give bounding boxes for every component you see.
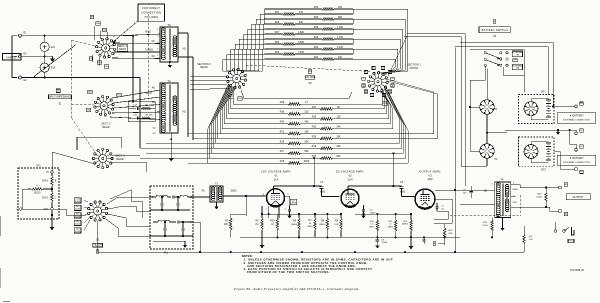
resistor R32 330 bbox=[322, 8, 334, 11]
terminal E3 bbox=[19, 55, 22, 58]
resistor R31 470 bbox=[283, 13, 295, 16]
FL1 terminal 5 bbox=[191, 221, 193, 223]
socket P1 bbox=[480, 100, 494, 114]
wire lower ladder row from switch fan bbox=[231, 97, 320, 109]
resistor R7 .51MEG bbox=[314, 218, 316, 230]
wire E3 diagonal to switch S1 sect3 bbox=[35, 45, 77, 77]
resistor R28 1,300 bbox=[322, 28, 334, 31]
svg-text:TO LINES: TO LINES bbox=[144, 15, 158, 19]
main bottom bus wire bbox=[240, 236, 460, 238]
svg-text:OUT: OUT bbox=[44, 209, 49, 211]
resistor R12 1MEG bbox=[410, 220, 412, 231]
T1 ground wire bbox=[170, 133, 172, 157]
gang dash branch to SECT.2 REAR bbox=[72, 103, 95, 106]
battery switch S4 contacts bbox=[484, 52, 486, 54]
junction dots on buses bbox=[276, 236, 278, 238]
wire lower ladder row from switch fan bbox=[214, 121, 321, 148]
resistor R4 22K bbox=[523, 234, 525, 244]
resistor R19 30K bbox=[288, 142, 301, 145]
wire fan to SECTION 2 REAR contact bbox=[233, 69, 235, 72]
resistor R3 20K bbox=[229, 218, 232, 230]
FL1 lower caps bbox=[164, 222, 166, 228]
svg-text:R1 10K: R1 10K bbox=[145, 105, 153, 107]
svg-text:1ST VOLTAGE AMPL: 1ST VOLTAGE AMPL bbox=[261, 170, 291, 174]
svg-text:470: 470 bbox=[299, 11, 304, 14]
FL1 terminal 3 bbox=[151, 235, 153, 237]
svg-text:R38: R38 bbox=[280, 101, 285, 104]
wire lower ladder row from switch fan bbox=[229, 100, 288, 114]
svg-text:xx: xx bbox=[392, 85, 394, 87]
upper ladder right connection verticals bbox=[352, 9, 354, 14]
rotary switch S1 SECT.3 REAR bbox=[102, 44, 110, 52]
svg-text:600Ω: 600Ω bbox=[146, 92, 152, 95]
wire V3 plate to T4 bbox=[435, 189, 495, 191]
resistor R16 82K bbox=[320, 157, 333, 160]
wire fan to SECTION 1 FRONT contact bbox=[379, 72, 408, 73]
resistor R37 82 bbox=[320, 108, 333, 111]
ground under R12 bbox=[410, 244, 412, 246]
svg-text:30K: 30K bbox=[304, 140, 309, 143]
resistor R34 460 bbox=[288, 122, 301, 125]
wire under V1 bus bbox=[262, 213, 341, 215]
svg-text:1,800: 1,800 bbox=[298, 31, 305, 34]
resistor R22 10K bbox=[322, 58, 334, 61]
svg-text:2MEG: 2MEG bbox=[319, 224, 325, 226]
wire input top bus bbox=[45, 35, 133, 37]
svg-text:V2: V2 bbox=[348, 174, 352, 178]
svg-text:FL1: FL1 bbox=[164, 251, 169, 254]
svg-text:R29: R29 bbox=[275, 21, 280, 24]
svg-text:1L4: 1L4 bbox=[274, 178, 279, 182]
wire fan to SECTION 1 FRONT contact bbox=[380, 71, 405, 73]
svg-text:FRONT: FRONT bbox=[410, 66, 419, 70]
svg-text:R2 10K: R2 10K bbox=[145, 115, 153, 117]
svg-text:R28: R28 bbox=[314, 26, 319, 29]
wire jack column bbox=[44, 51, 46, 63]
wire lower ladder row from switch fan bbox=[220, 112, 288, 134]
wire lower ladder row R21 long to right verticals bbox=[301, 92, 434, 134]
wire above SECT.1 REAR bbox=[77, 137, 121, 148]
wire lower ladder row to SECTION 1 FRONT bbox=[333, 128, 406, 159]
wire SECT.3 to T2 line 0 ohm bbox=[114, 42, 160, 45]
svg-text:INPUT IMPEDANCE: INPUT IMPEDANCE bbox=[48, 94, 72, 98]
wire FL1 lower to bus bbox=[193, 222, 200, 252]
ground under C4 bbox=[363, 214, 365, 216]
wire SECT.1 REAR to AT1 IN bbox=[52, 152, 95, 171]
tube V2 bbox=[341, 189, 359, 207]
capacitor C2 and A tap bbox=[290, 199, 297, 204]
resistor R33 240 bbox=[320, 127, 333, 130]
wire T3 to V1 grid bbox=[223, 195, 258, 197]
label INPUT bbox=[3, 54, 22, 61]
resistor R11 .5MEG bbox=[394, 220, 396, 231]
resistor A 15010 horizontal bbox=[51, 188, 53, 190]
label INTERNAL ON bbox=[512, 64, 522, 70]
svg-text:.25UF: .25UF bbox=[291, 203, 297, 205]
svg-text:4Ω: 4Ω bbox=[183, 111, 186, 114]
upper ladder left staircase wires to SECTION 2 REAR bbox=[223, 9, 265, 71]
wire fan to SECTION 1 FRONT contact bbox=[381, 70, 402, 74]
filter position label box 4 bbox=[74, 220, 81, 225]
svg-text:1MEG: 1MEG bbox=[402, 224, 408, 226]
wire SECT.1 REAR right side bbox=[112, 154, 140, 156]
svg-text:10K: 10K bbox=[338, 56, 343, 59]
svg-text:0Ω: 0Ω bbox=[151, 55, 154, 58]
BT1 battery symbol bbox=[546, 99, 551, 101]
chassis dash line near output bbox=[450, 215, 521, 217]
ground input bbox=[45, 55, 53, 57]
resistor R25 3,600 bbox=[283, 43, 295, 46]
FL1 middle wire bbox=[153, 209, 190, 211]
svg-text:▼ BATTERY: ▼ BATTERY bbox=[569, 157, 584, 160]
capacitor C6 100 bbox=[470, 190, 473, 192]
T1 terminal numbers bbox=[159, 87, 160, 88]
svg-text:15,010: 15,010 bbox=[33, 193, 41, 195]
label EXTERNAL ON bbox=[512, 51, 522, 57]
output terminal E5 bbox=[559, 186, 562, 189]
wire lower ladder row to SECTION 1 FRONT bbox=[301, 100, 387, 114]
svg-text:MEG: MEG bbox=[308, 226, 313, 228]
wire lower ladder row from switch fan bbox=[211, 124, 288, 153]
svg-text:5,100: 5,100 bbox=[482, 225, 488, 227]
svg-text:220: 220 bbox=[305, 111, 310, 114]
wire V3 right loops bbox=[434, 199, 452, 223]
label battery external connection lower bbox=[557, 155, 596, 165]
jack J1 bbox=[40, 42, 49, 51]
resistor R38 27 bbox=[288, 103, 301, 106]
wire mid junction to battery bbox=[487, 132, 507, 134]
label OFF bbox=[513, 59, 518, 62]
resistor R14 5100 bbox=[491, 220, 493, 231]
svg-text:R39: R39 bbox=[270, 221, 275, 223]
svg-text:5,000: 5,000 bbox=[75, 209, 81, 211]
socket P2 bbox=[480, 144, 494, 158]
svg-text:xx: xx bbox=[363, 85, 365, 87]
T3 ground bbox=[216, 202, 218, 205]
terminal E8 bbox=[575, 105, 578, 108]
svg-text:220K: 220K bbox=[304, 160, 310, 163]
capacitor FL1 C lower bbox=[177, 220, 179, 223]
svg-text:xx: xx bbox=[389, 91, 391, 93]
FL1 terminal 4 bbox=[191, 196, 193, 198]
svg-text:3,600: 3,600 bbox=[536, 196, 542, 198]
AT1 IN terminal bbox=[51, 171, 53, 173]
svg-text:3,000: 3,000 bbox=[75, 216, 81, 218]
svg-text:56K: 56K bbox=[304, 150, 309, 153]
wire E2 to jack column bbox=[22, 77, 45, 79]
wire fan to SECTION 1 FRONT contact bbox=[383, 69, 401, 74]
wire V2 plate load tie to ladder row bbox=[393, 153, 395, 186]
gang dash branch to SECT.1 REAR bbox=[72, 118, 98, 155]
wire AT1 left leg bbox=[22, 189, 28, 209]
resistor R9 3.9K bbox=[340, 218, 342, 230]
label S1 INPUT IMPEDANCE bbox=[56, 89, 60, 93]
wire lower ladder row from switch fan bbox=[224, 106, 288, 124]
svg-text:1M: 1M bbox=[90, 17, 93, 19]
wire loop right of S2 bbox=[110, 190, 142, 218]
wire SECT.3 to T2 line 600 ohm bbox=[113, 34, 160, 36]
svg-text:2,000: 2,000 bbox=[75, 224, 81, 226]
wire FL1 to T3 bbox=[193, 196, 210, 198]
svg-text:INPUT: INPUT bbox=[7, 55, 18, 59]
wire V1 grid bbox=[258, 195, 267, 197]
terminal E4 bbox=[559, 210, 562, 213]
svg-text:R36: R36 bbox=[280, 111, 285, 114]
wire S2 bottom to bus bbox=[98, 221, 240, 252]
inductor L2 bbox=[180, 195, 188, 197]
svg-text:1U4: 1U4 bbox=[348, 178, 353, 182]
BT2 battery symbol bbox=[546, 142, 551, 144]
capacitor C3 6200 bbox=[319, 186, 323, 188]
svg-text:8Ω: 8Ω bbox=[484, 191, 487, 193]
resistor R39 10 bbox=[276, 218, 278, 230]
rotary switch S1 SECT.1 REAR bbox=[99, 155, 107, 163]
wire fan to SECTION 1 FRONT contact bbox=[385, 67, 396, 75]
capacitor C7 at V3 bbox=[435, 206, 438, 208]
transformer T2 bbox=[160, 27, 178, 62]
wire P2 down bbox=[486, 158, 488, 166]
svg-text:xx: xx bbox=[392, 78, 394, 80]
ground under C2 bbox=[289, 214, 291, 216]
wire SECT.3 to T2 line 0 ohm lower bbox=[112, 57, 160, 60]
svg-text:82K: 82K bbox=[336, 155, 341, 158]
ground under C8 bbox=[376, 244, 378, 246]
svg-text:R15: R15 bbox=[280, 160, 285, 163]
wire fan to SECTION 2 REAR contact bbox=[231, 70, 234, 73]
wire fan to SECTION 2 REAR contact bbox=[227, 70, 233, 72]
svg-text:2D VOLTAGE AMPL: 2D VOLTAGE AMPL bbox=[336, 170, 364, 174]
wire lower ladder row from switch fan bbox=[227, 103, 321, 119]
resistor R35 120 bbox=[320, 118, 333, 121]
resistor R30 680 bbox=[322, 18, 334, 21]
wire SECT.2 to T1 terminals bbox=[112, 90, 160, 98]
BT2 socket bbox=[524, 145, 538, 159]
svg-text:T1: T1 bbox=[167, 79, 171, 83]
svg-text:MEG: MEG bbox=[388, 226, 393, 228]
capacitor C8 .25UF bbox=[376, 237, 378, 239]
rotary switch S2 FILTER bbox=[94, 207, 102, 215]
svg-text:AT1: AT1 bbox=[36, 165, 41, 168]
svg-text:0Ω: 0Ω bbox=[151, 40, 154, 43]
capacitor C15 bbox=[136, 117, 138, 120]
svg-text:910: 910 bbox=[299, 21, 304, 24]
wire to T4 lower bbox=[460, 203, 495, 205]
label battery external connection upper bbox=[557, 113, 596, 123]
svg-text:EXTERNAL CONNECTION: EXTERNAL CONNECTION bbox=[563, 119, 590, 122]
svg-text:0Ω: 0Ω bbox=[153, 133, 156, 135]
svg-text:BT1: BT1 bbox=[541, 91, 546, 94]
wire lower ladder row to SECTION 1 FRONT bbox=[301, 131, 409, 163]
rotary switch S1 SECT.2 REAR bbox=[100, 102, 108, 110]
svg-text:3.9K: 3.9K bbox=[334, 224, 339, 226]
svg-text:TM 2099-26: TM 2099-26 bbox=[570, 268, 585, 272]
svg-text:R24: R24 bbox=[314, 46, 319, 49]
AT1 OUT terminal bbox=[51, 202, 53, 208]
wire V2 plate riser bbox=[347, 186, 349, 189]
wires SECTION 2 REAR left contacts to transformers bbox=[190, 75, 228, 78]
wire lower ladder row from switch fan bbox=[222, 109, 320, 129]
svg-text:4Ω: 4Ω bbox=[201, 190, 204, 193]
svg-text:R17: R17 bbox=[280, 150, 285, 153]
wire T2 secondary right bbox=[178, 32, 188, 34]
resistor R18 40K bbox=[320, 147, 333, 150]
svg-text:R20: R20 bbox=[312, 135, 317, 138]
filter FL1 dashed box bbox=[150, 186, 193, 249]
filter position label box 3 bbox=[74, 213, 81, 218]
svg-text:2,700: 2,700 bbox=[337, 36, 344, 39]
svg-text:FROM EITHER OF THE TWO SW: FROM EITHER OF THE TWO SWITCH SECTIONS. bbox=[247, 270, 330, 274]
svg-text:ON: ON bbox=[516, 68, 520, 70]
svg-text:REAR: REAR bbox=[102, 125, 109, 129]
svg-text:R23: R23 bbox=[275, 51, 280, 54]
T2 terminal numbers bbox=[159, 30, 160, 31]
note box FOR DIRECT CONNECTION TO LINES bbox=[138, 4, 165, 21]
svg-text:NORM: NORM bbox=[382, 103, 388, 105]
resistor R20 20K bbox=[320, 137, 333, 140]
wire lower ladder row from switch fan bbox=[216, 118, 288, 143]
wire lower ladder row to SECTION 1 FRONT bbox=[301, 118, 400, 143]
svg-text:1,300: 1,300 bbox=[337, 26, 344, 29]
wire lower ladder row to SECTION 1 FRONT bbox=[333, 97, 385, 109]
svg-text:V3: V3 bbox=[428, 173, 432, 177]
wire input bottom bus bbox=[45, 77, 140, 79]
attenuator AT1 dashed box bbox=[18, 168, 59, 219]
wire V1 plate load tie to ladder row bbox=[313, 158, 315, 186]
wire link switch2 to switch1 y98 bbox=[241, 90, 352, 98]
bus wire y130 bbox=[505, 129, 576, 131]
svg-text:IN: IN bbox=[46, 172, 49, 174]
label VOLUME S3 bbox=[308, 70, 312, 74]
contact value boxes around SECT.3 REAR bbox=[90, 15, 94, 18]
wire lower ladder row from switch fan bbox=[209, 128, 320, 159]
resistor R6 2MEG bbox=[298, 218, 300, 230]
FL1 ground bbox=[184, 241, 186, 243]
label OUTPUT bbox=[566, 194, 590, 200]
svg-text:MEG: MEG bbox=[369, 226, 374, 228]
chassis dash-dot line left bbox=[148, 14, 150, 96]
capacitor FL1 C upper bbox=[172, 195, 174, 198]
svg-text:R21: R21 bbox=[280, 130, 285, 133]
gang dash line S3 sections bbox=[246, 65, 372, 72]
contact value boxes around SECT.2 REAR bbox=[88, 90, 93, 93]
svg-text:6200: 6200 bbox=[400, 192, 406, 194]
svg-text:VOLUME: VOLUME bbox=[305, 75, 316, 79]
resistor R27 1,800 bbox=[283, 33, 295, 36]
wire lower ladder row to SECTION 1 FRONT bbox=[333, 109, 393, 129]
svg-text:68K: 68K bbox=[449, 233, 453, 235]
svg-text:0Ω: 0Ω bbox=[153, 127, 156, 129]
wire fan to SECTION 2 REAR contact bbox=[236, 70, 242, 71]
wire V2 plate bus bbox=[355, 213, 411, 215]
arrow from note box to SECT.3 REAR bbox=[113, 21, 139, 43]
wire fan to SECTION 2 REAR contact bbox=[237, 70, 246, 71]
tube V1 bbox=[267, 189, 285, 207]
terminal E6 bbox=[575, 168, 578, 171]
battery BT1 dashed box bbox=[518, 95, 554, 124]
ground under T2 bbox=[169, 61, 171, 63]
svg-text:xx: xx bbox=[371, 94, 373, 96]
svg-text:20K: 20K bbox=[336, 135, 341, 138]
svg-text:xx: xx bbox=[382, 67, 384, 69]
svg-text:3Q4: 3Q4 bbox=[427, 177, 433, 181]
svg-text:xx: xx bbox=[363, 78, 365, 80]
resistor R24 5,100 bbox=[322, 48, 334, 51]
capacitor C4 .05UF bbox=[362, 209, 365, 211]
svg-text:V1: V1 bbox=[274, 174, 278, 178]
filter position label box 2 bbox=[74, 205, 81, 210]
AT1 C1 terminal bbox=[20, 208, 22, 210]
tube V3 (bold envelope) bbox=[415, 189, 435, 209]
resistor R36 220 bbox=[288, 113, 301, 116]
rotary switch S3 SECTION 1 FRONT bbox=[374, 78, 382, 86]
wire SECT.3 to T2 line 5000 ohm bbox=[114, 51, 160, 53]
network R1 R2 C14 C15 box wires bbox=[128, 102, 155, 122]
transformer T4 bbox=[495, 182, 511, 218]
svg-text:.25UF: .25UF bbox=[381, 242, 388, 244]
capacitor C12 vertical bbox=[161, 197, 163, 203]
svg-text:R32: R32 bbox=[314, 6, 319, 9]
svg-text:15K: 15K bbox=[304, 130, 309, 133]
svg-text:xx: xx bbox=[365, 71, 367, 73]
FL1 terminal 6 bbox=[191, 235, 193, 237]
svg-text:OUTPUT AMPL: OUTPUT AMPL bbox=[419, 169, 441, 173]
filter position label box 5 bbox=[74, 228, 81, 233]
wire fan to SECTION 2 REAR contact bbox=[241, 70, 263, 72]
wires S2 to FL1 bbox=[107, 197, 150, 204]
svg-text:R37: R37 bbox=[312, 106, 317, 109]
svg-text:600Ω: 600Ω bbox=[513, 189, 519, 191]
wire P1 to P2 bbox=[486, 114, 488, 144]
svg-text:8,000: 8,000 bbox=[75, 201, 81, 203]
gang dash line S1 vertical bbox=[71, 40, 73, 118]
wire fan to SECTION 2 REAR contact bbox=[235, 70, 238, 71]
resistor 576.6 C lower bbox=[51, 192, 53, 202]
wire fan to SECTION 1 FRONT contact bbox=[384, 68, 398, 75]
wire stubs SECT.3 REAR contacts bbox=[98, 57, 100, 66]
wire lower ladder row to SECTION 1 FRONT bbox=[333, 103, 389, 119]
wire fan to SECTION 2 REAR contact bbox=[239, 69, 254, 72]
wire long vertical right side bbox=[464, 75, 466, 186]
svg-text:500Ω: 500Ω bbox=[231, 190, 237, 193]
svg-text:REAR: REAR bbox=[116, 157, 123, 161]
AT1 ground wire bbox=[22, 208, 51, 210]
svg-text:576.6: 576.6 bbox=[42, 198, 48, 200]
terminal E2 bbox=[19, 76, 22, 79]
FL1 terminal 2 bbox=[151, 209, 153, 211]
wire lower ladder row to SECTION 1 FRONT bbox=[301, 124, 404, 153]
resistor 576.6 B upper bbox=[51, 173, 53, 176]
label NORM SELD bbox=[382, 102, 388, 105]
terminal E9 bbox=[575, 132, 578, 135]
resistor R17 56K bbox=[288, 152, 301, 155]
svg-text:6200: 6200 bbox=[320, 192, 326, 194]
svg-text:5,000: 5,000 bbox=[75, 231, 81, 233]
wire E3 to jack column bbox=[22, 55, 45, 57]
svg-text:REAR: REAR bbox=[119, 48, 126, 51]
resistor R5 3.9 bbox=[261, 218, 263, 230]
svg-text:240: 240 bbox=[337, 126, 342, 129]
svg-text:40K: 40K bbox=[336, 145, 341, 148]
T4 ground bbox=[502, 218, 504, 227]
svg-text:CONNECTION: CONNECTION bbox=[141, 11, 161, 15]
svg-text:R22: R22 bbox=[314, 56, 319, 59]
S4 wiper arrows bbox=[486, 53, 499, 58]
FL1 bottom wire bbox=[153, 235, 190, 237]
svg-text:R19: R19 bbox=[280, 140, 285, 143]
svg-text:T2: T2 bbox=[167, 23, 171, 27]
rotary switch S3 SECTION 2 REAR bbox=[233, 75, 241, 83]
svg-text:120: 120 bbox=[337, 116, 342, 119]
